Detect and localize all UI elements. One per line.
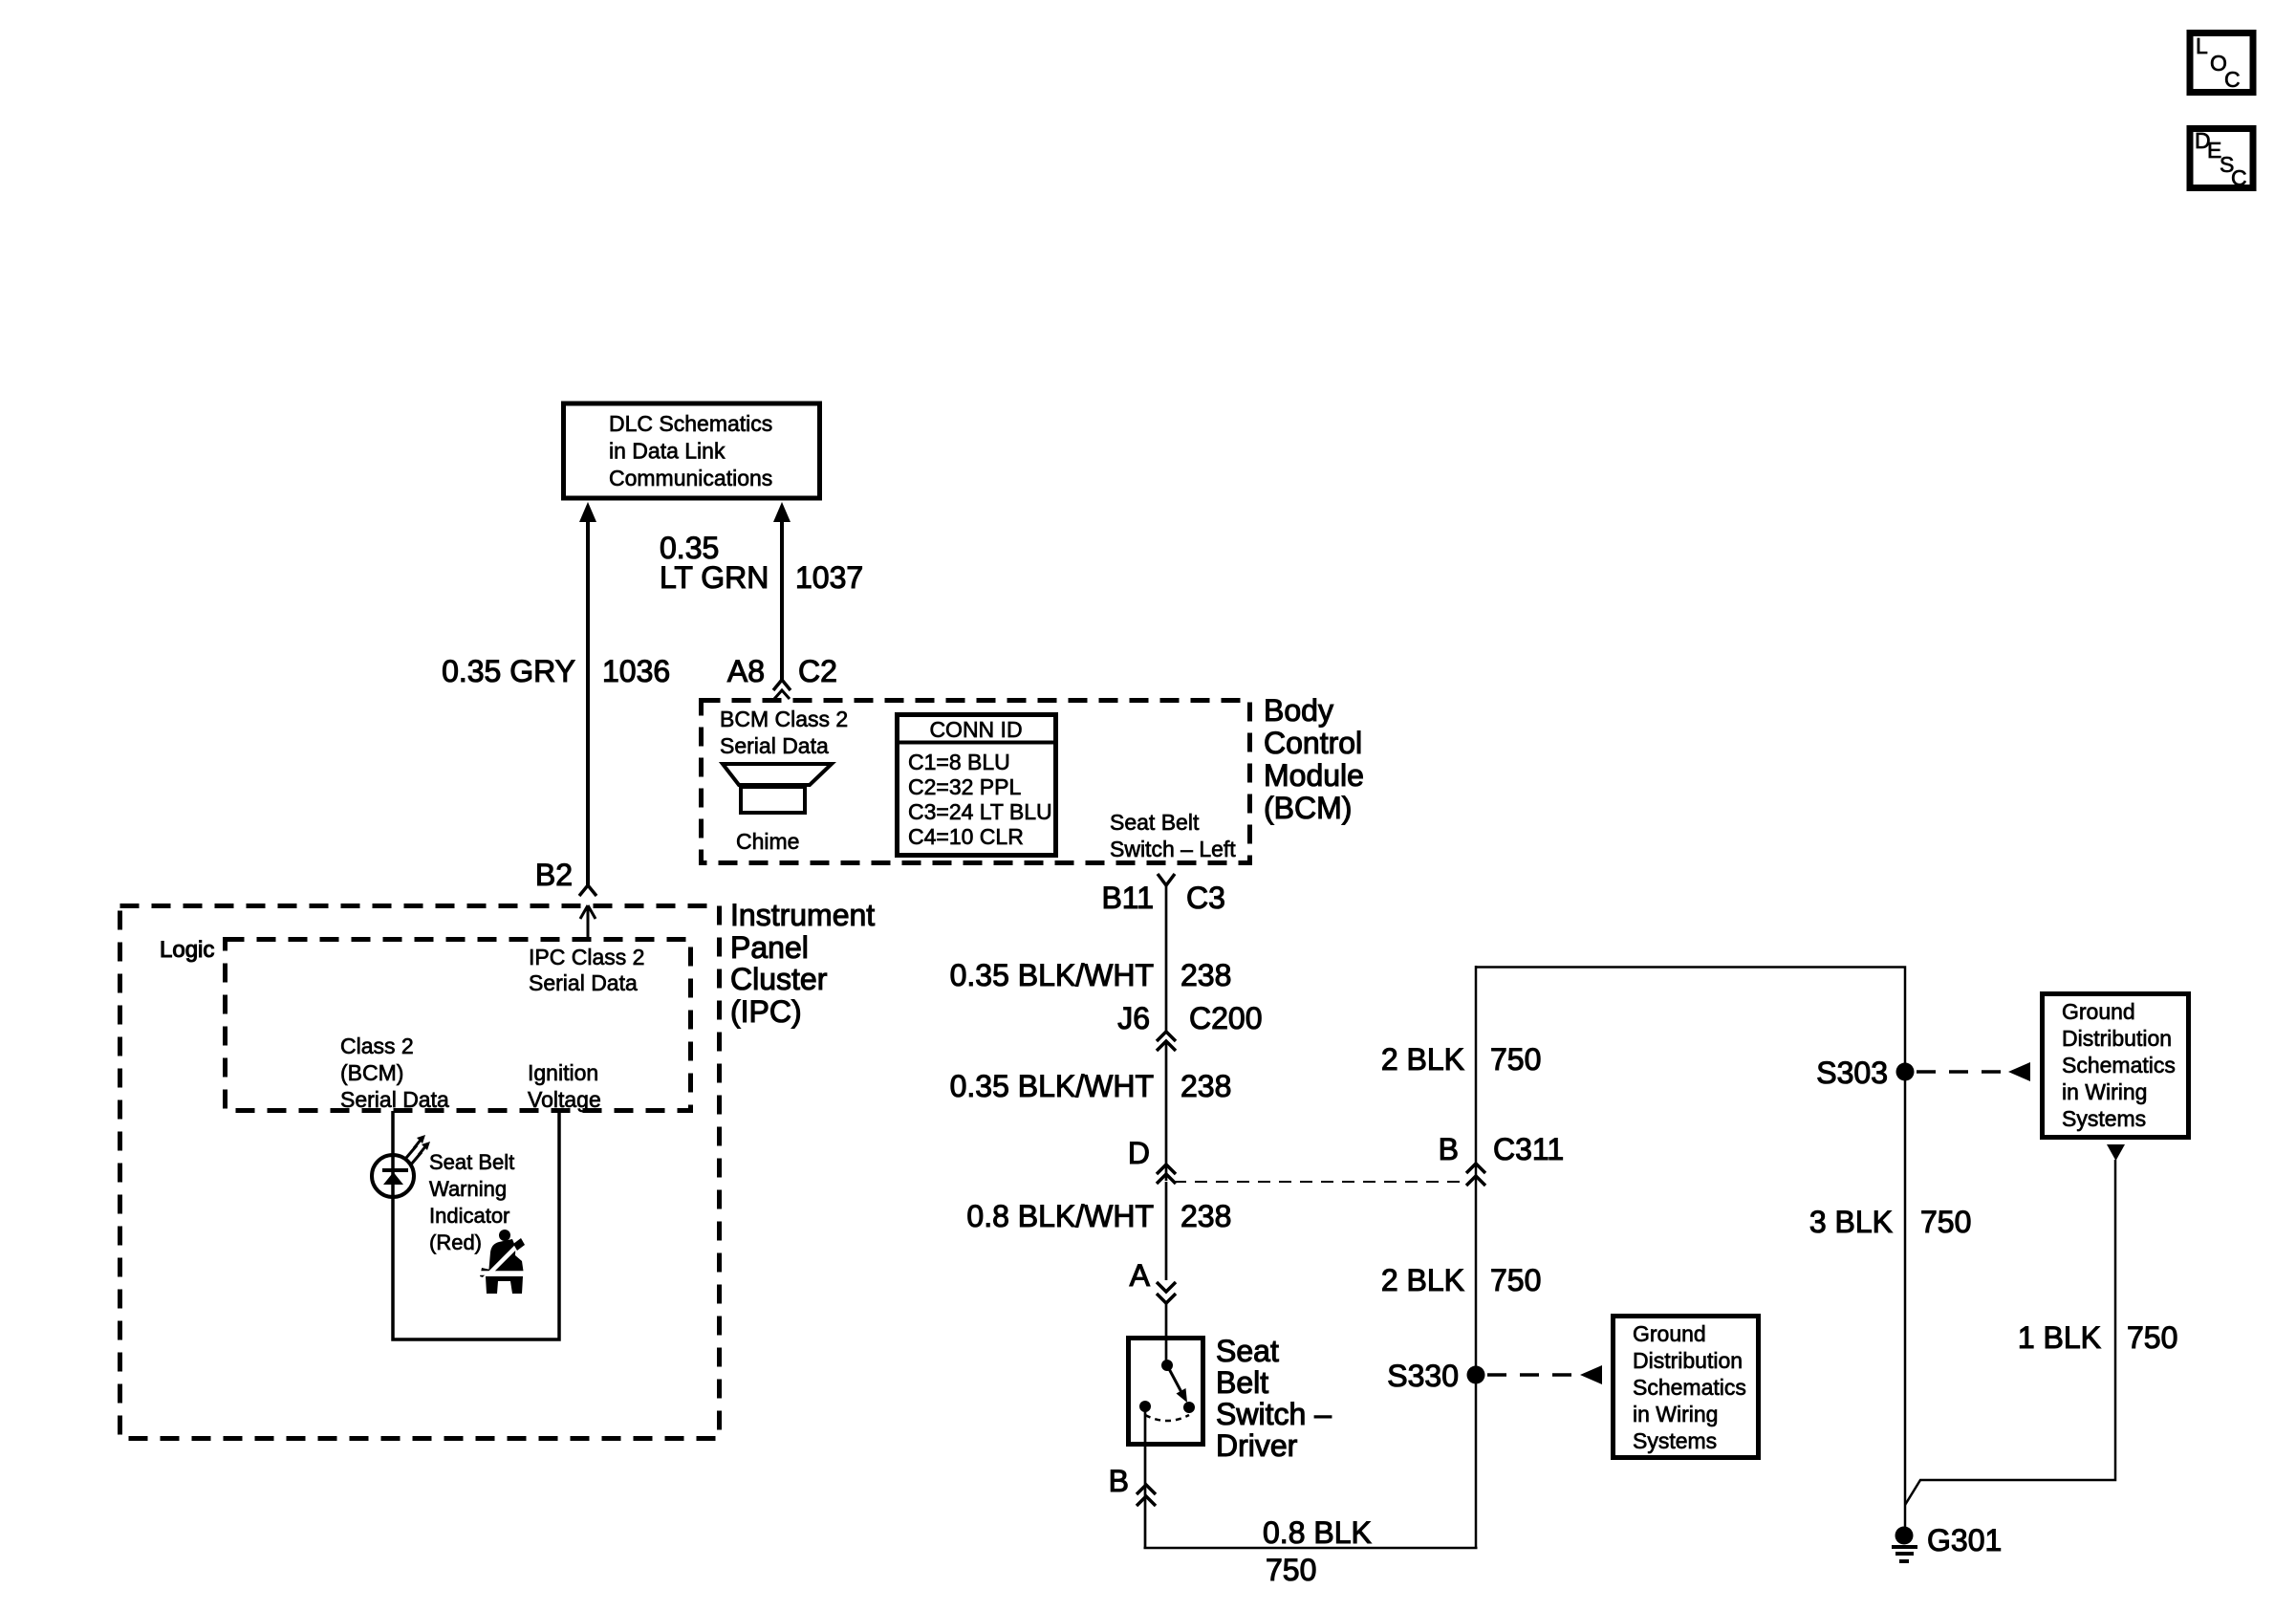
svg-text:Chime: Chime — [736, 829, 799, 854]
DESC legend box — [2190, 128, 2253, 190]
svg-text:0.8 BLK/WHT: 0.8 BLK/WHT — [966, 1199, 1154, 1233]
svg-text:D: D — [1128, 1136, 1150, 1170]
label Seat Belt Switch - Left — [1110, 810, 1236, 861]
svg-text:238: 238 — [1180, 958, 1231, 992]
svg-text:Distribution: Distribution — [1633, 1348, 1743, 1373]
svg-text:LT GRN: LT GRN — [660, 560, 769, 595]
connector A (double chevron down) — [1157, 1282, 1176, 1303]
svg-text:J6: J6 — [1117, 1001, 1150, 1035]
ground G301 — [1892, 1523, 2002, 1561]
svg-text:in Wiring: in Wiring — [1633, 1402, 1718, 1426]
IPC boundary arrow at B2 — [580, 905, 596, 938]
svg-text:0.35 BLK/WHT: 0.35 BLK/WHT — [950, 958, 1154, 992]
svg-text:(IPC): (IPC) — [730, 994, 802, 1029]
svg-text:L: L — [2196, 33, 2208, 58]
svg-text:Systems: Systems — [2062, 1106, 2146, 1131]
svg-text:C4=10 CLR: C4=10 CLR — [908, 824, 1024, 849]
svg-text:Seat: Seat — [1216, 1334, 1279, 1368]
wire serial data to LED — [391, 1111, 395, 1157]
svg-text:Logic: Logic — [160, 937, 214, 963]
svg-text:A8: A8 — [727, 654, 765, 688]
label BCM Class 2 Serial Data — [720, 707, 848, 758]
svg-text:750: 750 — [1490, 1263, 1541, 1297]
svg-text:in Wiring: in Wiring — [2062, 1079, 2147, 1104]
connector C3 pin B11 (Y symbol) — [1158, 874, 1175, 885]
svg-text:Cluster: Cluster — [730, 962, 828, 996]
svg-text:Serial Data: Serial Data — [529, 970, 638, 995]
svg-text:Voltage: Voltage — [528, 1087, 601, 1112]
label Instrument Panel Cluster (IPC) — [730, 898, 875, 1029]
label Ignition Voltage — [528, 1060, 601, 1112]
LOC legend box — [2190, 33, 2253, 93]
wire 1037 LT GRN from BCM A8 to DLC — [773, 502, 791, 699]
svg-text:750: 750 — [1490, 1042, 1541, 1077]
dashed reference arrow from S330 — [1487, 1365, 1602, 1384]
label IPC Class 2 Serial Data — [529, 945, 644, 995]
svg-text:Ground: Ground — [1633, 1321, 1706, 1346]
svg-text:Communications: Communications — [609, 466, 772, 490]
connector D (double chevron) — [1157, 1165, 1176, 1184]
svg-text:1037: 1037 — [795, 560, 863, 595]
svg-text:Module: Module — [1264, 758, 1364, 793]
splice S330 — [1387, 1359, 1484, 1393]
svg-text:C2: C2 — [798, 654, 837, 688]
svg-text:S303: S303 — [1816, 1056, 1888, 1090]
IPC module dashed box — [120, 906, 720, 1439]
seat belt person icon — [478, 1230, 528, 1294]
svg-text:2 BLK: 2 BLK — [1381, 1263, 1464, 1297]
LED seat belt warning indicator — [372, 1155, 414, 1197]
wire from switch down — [1144, 1406, 1147, 1548]
wire 238 BLK/WHT segment 1 — [1165, 884, 1168, 1032]
svg-text:S330: S330 — [1387, 1359, 1459, 1393]
svg-text:CONN ID: CONN ID — [929, 717, 1022, 742]
wire top link to S303 — [1476, 968, 1905, 1073]
svg-text:3 BLK: 3 BLK — [1809, 1205, 1893, 1239]
svg-text:750: 750 — [1920, 1205, 1971, 1239]
wire 750 BLK bottom horizontal — [1144, 1547, 1478, 1550]
dashed reference arrow from S303 — [1917, 1062, 2030, 1081]
logic dashed box — [226, 940, 691, 1111]
svg-text:238: 238 — [1180, 1199, 1231, 1233]
svg-text:Serial Data: Serial Data — [340, 1087, 449, 1112]
svg-text:1036: 1036 — [602, 654, 670, 688]
svg-text:C: C — [2231, 165, 2247, 190]
svg-text:750: 750 — [1266, 1553, 1316, 1587]
svg-text:Indicator: Indicator — [429, 1204, 509, 1228]
svg-text:(BCM): (BCM) — [1264, 791, 1352, 825]
svg-text:Control: Control — [1264, 726, 1362, 760]
label Seat Belt Switch - Driver — [1216, 1334, 1332, 1463]
svg-text:Warning: Warning — [429, 1177, 507, 1201]
wire 750 right riser — [1475, 966, 1478, 1548]
CONN ID table — [895, 715, 1057, 856]
chime speaker symbol — [723, 764, 832, 813]
svg-text:0.8 BLK: 0.8 BLK — [1263, 1515, 1372, 1550]
svg-text:A: A — [1130, 1258, 1151, 1293]
svg-text:B2: B2 — [535, 858, 573, 892]
wire LED loop to ignition voltage — [393, 1111, 559, 1339]
svg-text:C311: C311 — [1493, 1132, 1564, 1166]
svg-text:238: 238 — [1180, 1069, 1231, 1103]
label Class 2 (BCM) Serial Data — [340, 1034, 449, 1112]
svg-text:B: B — [1109, 1464, 1129, 1498]
svg-text:(Red): (Red) — [429, 1230, 482, 1254]
svg-text:G301: G301 — [1927, 1523, 2002, 1557]
svg-text:Seat Belt: Seat Belt — [429, 1150, 514, 1174]
wire 238 BLK/WHT segment 2 — [1165, 1041, 1168, 1181]
label Seat Belt Warning Indicator (Red) — [429, 1150, 514, 1254]
svg-text:(BCM): (BCM) — [340, 1060, 403, 1085]
svg-text:C: C — [2224, 67, 2241, 92]
ground distribution box upper — [2043, 994, 2189, 1138]
svg-text:Body: Body — [1264, 693, 1333, 728]
svg-text:Seat Belt: Seat Belt — [1110, 810, 1200, 835]
wire 3 BLK to ground — [1904, 1072, 1907, 1532]
svg-text:C2=32 PPL: C2=32 PPL — [908, 774, 1021, 799]
svg-text:in Data Link: in Data Link — [609, 439, 726, 464]
svg-text:Switch –: Switch – — [1216, 1397, 1332, 1431]
connector C200 pin J6 (double chevron) — [1157, 1032, 1176, 1051]
svg-text:750: 750 — [2127, 1320, 2177, 1355]
wire into switch — [1165, 1303, 1168, 1365]
arrow below ground distribution box upper — [2107, 1144, 2125, 1161]
svg-text:Class 2: Class 2 — [340, 1034, 414, 1058]
label Body Control Module (BCM) — [1264, 693, 1364, 825]
svg-text:Belt: Belt — [1216, 1365, 1268, 1400]
BCM module dashed box — [702, 701, 1250, 863]
svg-text:C1=8 BLU: C1=8 BLU — [908, 750, 1010, 774]
svg-text:0.35 GRY: 0.35 GRY — [442, 654, 575, 688]
svg-text:DLC Schematics: DLC Schematics — [609, 411, 772, 436]
svg-text:Serial Data: Serial Data — [720, 733, 829, 758]
svg-text:Schematics: Schematics — [1633, 1375, 1746, 1400]
svg-text:C3: C3 — [1186, 881, 1225, 915]
seat belt switch driver box — [1129, 1339, 1203, 1445]
svg-text:1 BLK: 1 BLK — [2018, 1320, 2101, 1355]
svg-text:2 BLK: 2 BLK — [1381, 1042, 1464, 1077]
svg-text:Systems: Systems — [1633, 1428, 1717, 1453]
svg-text:C3=24 LT BLU: C3=24 LT BLU — [908, 799, 1052, 824]
dashed link D to C311 — [1174, 1181, 1464, 1183]
svg-text:BCM Class 2: BCM Class 2 — [720, 707, 848, 731]
svg-text:Switch – Left: Switch – Left — [1110, 837, 1236, 861]
splice S303 — [1816, 1056, 1914, 1090]
svg-text:Distribution: Distribution — [2062, 1026, 2172, 1051]
svg-text:B11: B11 — [1101, 881, 1154, 915]
svg-text:Driver: Driver — [1216, 1428, 1298, 1463]
wire 238 BLK/WHT segment 3 — [1165, 1182, 1168, 1280]
LED light arrows — [406, 1135, 430, 1165]
svg-text:Panel: Panel — [730, 930, 809, 965]
svg-text:B: B — [1439, 1132, 1459, 1166]
DLC Schematics box — [564, 403, 820, 498]
svg-text:Instrument: Instrument — [730, 898, 875, 932]
wire 750 1 BLK — [1905, 1160, 2115, 1505]
switch contacts and arm — [1139, 1360, 1195, 1421]
svg-text:IPC Class 2: IPC Class 2 — [529, 945, 644, 969]
connector C311 (double chevron up) — [1466, 1164, 1485, 1186]
svg-text:0.35 BLK/WHT: 0.35 BLK/WHT — [950, 1069, 1154, 1103]
svg-text:Ground: Ground — [2062, 999, 2135, 1024]
wire 1036 GRY from IPC B2 to DLC — [579, 502, 596, 896]
connector B (double chevron up) — [1137, 1485, 1156, 1506]
ground distribution box lower — [1614, 1317, 1759, 1458]
svg-text:Ignition: Ignition — [528, 1060, 598, 1085]
label 0.35 LT GRN — [660, 531, 769, 595]
svg-text:Schematics: Schematics — [2062, 1053, 2176, 1078]
svg-text:C200: C200 — [1189, 1001, 1263, 1035]
